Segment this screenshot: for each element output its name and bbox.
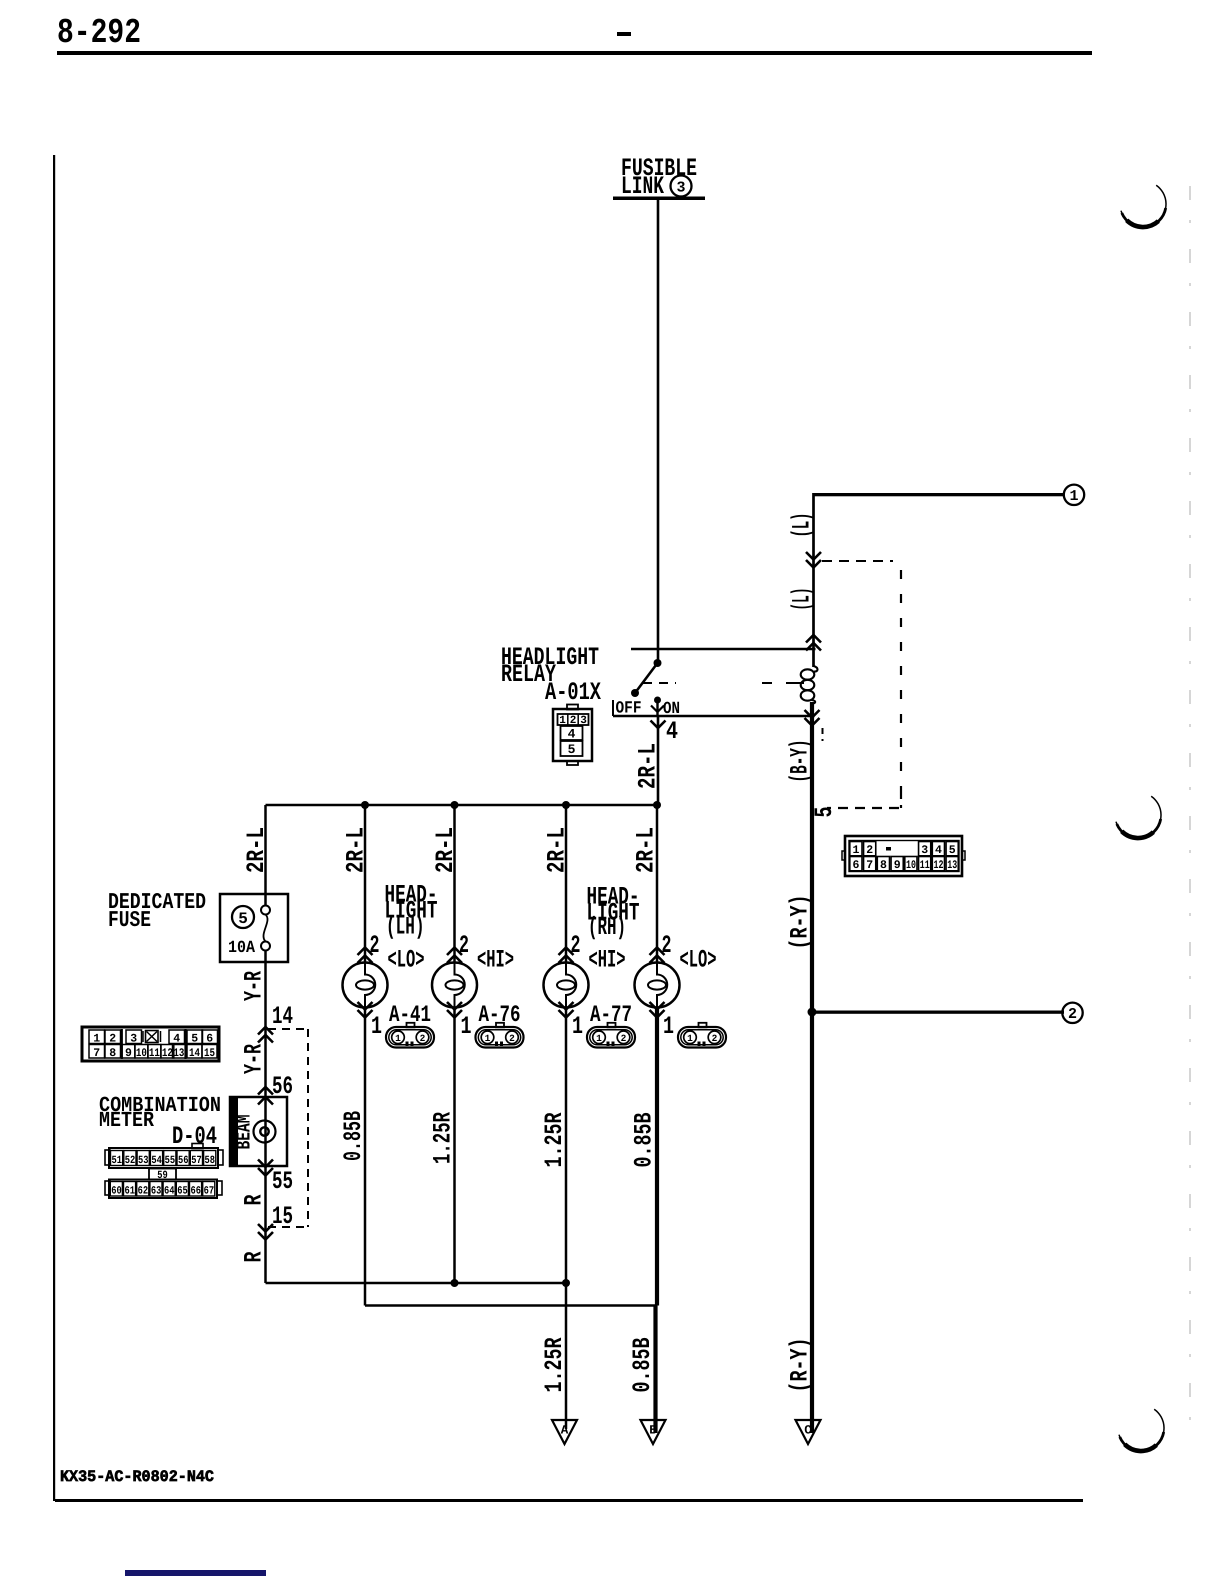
- svg-text:<HI>: <HI>: [589, 946, 626, 975]
- svg-text:A: A: [561, 1424, 569, 1438]
- svg-text:(B-Y): (B-Y): [786, 740, 815, 783]
- svg-text:11: 11: [920, 859, 930, 872]
- svg-text:1: 1: [461, 1012, 472, 1041]
- svg-text:<LO>: <LO>: [680, 946, 717, 975]
- svg-text:63: 63: [151, 1186, 162, 1198]
- svg-text:1: 1: [395, 1033, 401, 1044]
- svg-text:15: 15: [272, 1202, 293, 1231]
- svg-text:2: 2: [1068, 1006, 1077, 1023]
- svg-text:2: 2: [712, 1033, 718, 1044]
- svg-text:1: 1: [572, 1012, 583, 1041]
- svg-text:14: 14: [272, 1002, 293, 1031]
- svg-text:9: 9: [125, 1047, 132, 1060]
- svg-text:13: 13: [947, 859, 957, 872]
- svg-text:2R-L: 2R-L: [634, 743, 663, 789]
- svg-text:5: 5: [949, 844, 956, 857]
- svg-text:53: 53: [138, 1155, 149, 1167]
- svg-text:2: 2: [571, 931, 581, 960]
- svg-text:0.85B: 0.85B: [628, 1338, 657, 1393]
- svg-text:15: 15: [204, 1047, 215, 1060]
- svg-text:A-77: A-77: [590, 1002, 632, 1029]
- svg-text:1: 1: [485, 1033, 491, 1044]
- svg-text:2: 2: [420, 1033, 426, 1044]
- svg-text:13: 13: [173, 1047, 184, 1060]
- svg-text:55: 55: [165, 1155, 176, 1167]
- svg-text:(RH): (RH): [588, 913, 626, 942]
- svg-text:1: 1: [371, 1012, 382, 1041]
- svg-text:2: 2: [621, 1033, 627, 1044]
- svg-text:57: 57: [191, 1155, 202, 1167]
- svg-text:(L): (L): [788, 513, 817, 538]
- svg-text:5: 5: [568, 742, 576, 757]
- svg-text:2: 2: [459, 931, 469, 960]
- svg-text:7: 7: [866, 859, 873, 872]
- svg-text:2: 2: [662, 931, 672, 960]
- svg-text:Y-R: Y-R: [240, 971, 269, 1001]
- svg-text:62: 62: [138, 1186, 149, 1198]
- svg-text:51: 51: [111, 1155, 122, 1167]
- svg-text:54: 54: [151, 1155, 162, 1167]
- svg-text:1.25R: 1.25R: [429, 1112, 458, 1164]
- svg-text:2: 2: [509, 1033, 515, 1044]
- svg-text:8-292: 8-292: [57, 13, 141, 53]
- svg-text:1: 1: [853, 844, 860, 857]
- svg-text:<LO>: <LO>: [388, 946, 425, 975]
- svg-text:2: 2: [370, 931, 380, 960]
- svg-text:10A: 10A: [228, 939, 256, 958]
- svg-text:56: 56: [178, 1155, 189, 1167]
- svg-text:R: R: [240, 1195, 269, 1206]
- svg-text:65: 65: [177, 1186, 188, 1198]
- svg-text:4: 4: [666, 717, 678, 746]
- svg-text:D-04: D-04: [172, 1122, 217, 1151]
- svg-text:(R-Y): (R-Y): [786, 895, 815, 950]
- svg-text:1.25R: 1.25R: [540, 1113, 569, 1168]
- svg-text:0.85B: 0.85B: [630, 1113, 659, 1168]
- svg-text:(L): (L): [788, 588, 817, 611]
- svg-text:2: 2: [109, 1033, 116, 1046]
- svg-text:A-01X: A-01X: [545, 678, 601, 707]
- svg-text:2: 2: [866, 844, 873, 857]
- svg-text:A-41: A-41: [389, 1002, 431, 1029]
- svg-text:A-76: A-76: [479, 1002, 521, 1029]
- svg-text:4: 4: [935, 844, 942, 857]
- svg-text:1: 1: [1069, 488, 1078, 505]
- svg-text:KX35-AC-R0802-N4C: KX35-AC-R0802-N4C: [60, 1468, 214, 1486]
- svg-text:<HI>: <HI>: [477, 946, 514, 975]
- svg-text:67: 67: [204, 1186, 215, 1198]
- svg-text:5: 5: [191, 1033, 198, 1046]
- svg-text:8: 8: [880, 859, 887, 872]
- svg-text:3: 3: [676, 179, 685, 196]
- svg-text:10: 10: [906, 859, 916, 872]
- svg-text:10: 10: [136, 1047, 147, 1060]
- svg-text:R: R: [240, 1252, 269, 1263]
- svg-text:58: 58: [205, 1155, 216, 1167]
- svg-text:5: 5: [810, 807, 839, 818]
- svg-text:12: 12: [162, 1047, 173, 1060]
- svg-text:9: 9: [894, 859, 901, 872]
- svg-text:6: 6: [206, 1033, 213, 1046]
- svg-text:11: 11: [149, 1047, 160, 1060]
- svg-text:C: C: [804, 1424, 812, 1438]
- svg-text:(R-Y): (R-Y): [786, 1338, 815, 1393]
- svg-text:4: 4: [173, 1033, 180, 1046]
- svg-text:64: 64: [164, 1186, 175, 1198]
- svg-text:1: 1: [687, 1033, 693, 1044]
- svg-text:1.25R: 1.25R: [540, 1338, 569, 1393]
- svg-text:3: 3: [130, 1033, 137, 1046]
- svg-text:0.85B: 0.85B: [339, 1111, 368, 1161]
- svg-text:(LH): (LH): [386, 913, 425, 942]
- svg-text:14: 14: [189, 1047, 200, 1060]
- svg-text:60: 60: [111, 1186, 122, 1198]
- svg-text:61: 61: [124, 1186, 135, 1198]
- svg-text:B: B: [649, 1424, 657, 1438]
- svg-text:4: 4: [568, 727, 576, 742]
- svg-text:52: 52: [125, 1155, 136, 1167]
- svg-text:66: 66: [190, 1186, 201, 1198]
- svg-text:Y-R: Y-R: [240, 1044, 269, 1074]
- svg-text:5: 5: [238, 910, 248, 928]
- svg-text:7: 7: [93, 1047, 100, 1060]
- svg-text:55: 55: [272, 1167, 293, 1196]
- svg-text:FUSE: FUSE: [108, 907, 151, 933]
- svg-text:1: 1: [663, 1012, 674, 1041]
- svg-text:12: 12: [934, 859, 944, 872]
- svg-text:METER: METER: [99, 1109, 154, 1133]
- svg-text:1: 1: [93, 1033, 100, 1046]
- svg-text:1: 1: [596, 1033, 602, 1044]
- svg-text:8: 8: [109, 1047, 116, 1060]
- svg-text:3: 3: [921, 844, 928, 857]
- svg-text:6: 6: [853, 859, 860, 872]
